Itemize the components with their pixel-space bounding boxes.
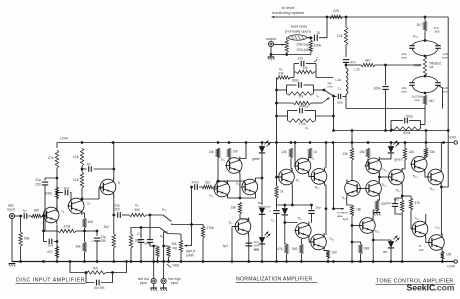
resistor 2k2 [113,215,115,234]
resistor 2k7 upper [424,17,426,21]
jack line low input [151,278,156,283]
transistor Tr21 [429,235,445,251]
loop 180p / 22k L1 [277,89,287,91]
wire cap to top line [319,17,327,38]
potentiometer 25k TREBLE [423,56,426,76]
svg-text:2k7: 2k7 [429,99,435,103]
svg-text:GAIN: GAIN [186,254,194,258]
wire Tr5 collector [240,143,246,159]
transistor Tr12 [311,234,327,250]
capacitor 47n [343,59,349,61]
transistor Tr7 [235,219,251,235]
capacitor 1n8 tune upper [435,45,441,47]
capacitor 22u 25V emitter [96,231,98,236]
jack line high input [161,278,166,283]
wire Tr16 emitter [401,185,403,200]
capacitor 180n mute [334,96,337,98]
wire Tr18 collector [440,143,442,169]
svg-text:470: 470 [47,250,53,254]
svg-text:25k log: 25k log [297,43,309,47]
wire wiper input gain [191,187,193,246]
svg-text:180n: 180n [337,101,344,105]
svg-text:Tr₁₉: Tr₁₉ [414,217,420,221]
wire top signal line [272,16,341,18]
capacitor 10p tune upper [409,45,415,47]
wire line high input [163,232,165,279]
LED green tone [390,143,392,147]
resistor 180k [129,234,132,248]
resistor 15k norm [216,148,219,158]
svg-text:2µ2: 2µ2 [223,244,229,248]
svg-text:22k: 22k [298,95,304,99]
svg-text:12k: 12k [302,66,308,70]
ground line high [163,284,165,288]
capacitor 470n [192,186,194,188]
svg-text:1µ: 1µ [23,209,27,213]
capacitor 22u 25V coupling [117,212,119,218]
wire x276 column [276,78,278,143]
wire relay to cap [287,37,288,39]
svg-text:.com: .com [435,283,455,293]
svg-text:monitoring system: monitoring system [272,10,305,15]
resistor 270k [201,226,204,238]
transistor Tr5 [226,158,242,174]
svg-text:L1b: L1b [354,68,360,72]
transistor Tr9 [295,158,311,174]
disc input terminal [9,213,14,218]
svg-text:NORMALIZATION AMPLIFIER: NORMALIZATION AMPLIFIER [236,277,313,283]
resistor 6k8 [293,101,311,104]
switch sig [324,90,334,96]
output arrow to sampling gate [334,208,345,210]
capacitor C1 6n8 [140,228,142,239]
svg-text:10k: 10k [233,150,239,154]
svg-text:100: 100 [332,251,338,255]
svg-text:Tr₁₂: Tr₁₂ [329,237,335,241]
svg-text:560: 560 [134,208,140,212]
wire Tr3 collector [113,143,115,180]
resistor 1k norm [308,148,311,158]
wire Tr17 collector [425,131,427,149]
resistor 470 [55,246,58,258]
resistor 12k norm [289,148,292,158]
wire Tr7 emitter [248,235,250,262]
svg-text:Tr₂₁: Tr₂₁ [435,226,440,230]
junction relay-100k [309,36,312,39]
wire Tr8 collector [291,168,292,170]
wire Tr12 emitter [324,250,328,252]
svg-text:12k: 12k [73,178,79,182]
svg-text:Tr₇: Tr₇ [229,221,233,225]
svg-text:Tr₁₁: Tr₁₁ [297,217,302,221]
wire Tr13-Tr15 bases [358,187,367,189]
svg-text:+: + [91,240,93,244]
svg-text:tune: tune [442,56,448,60]
capacitor C3 [276,205,278,210]
loop 72p / 270k [277,115,288,117]
svg-text:input: input [7,208,14,212]
wiper arrow treble [404,64,422,66]
svg-text:input: input [171,281,178,285]
resistor 910 [202,185,213,188]
wire Tr16 base [379,176,390,178]
capacitor 700p [391,120,403,122]
svg-text:6k8: 6k8 [364,247,369,251]
wire line low input [153,246,155,279]
svg-text:100: 100 [446,253,452,257]
parallel 1n5 / 12k [293,64,295,78]
wire Tr3 emitter [113,195,115,216]
wire Tr20 base [411,228,415,230]
ground rail 0V [12,261,454,263]
svg-text:+: + [269,210,271,214]
svg-text:220k: 220k [63,225,71,229]
transistor Tr3 [100,179,116,195]
ground output [270,55,272,57]
svg-text:18k: 18k [356,208,362,212]
svg-text:25V: 25V [35,183,42,187]
svg-text:100k: 100k [314,44,322,48]
transistor Tr10 [311,169,327,185]
reed relay [288,35,306,40]
wire Tr15 emitter [377,197,379,200]
svg-text:2k2: 2k2 [104,225,109,229]
svg-text:1k5: 1k5 [419,248,424,252]
capacitor 22u 25V electrolytic [42,181,48,183]
LED red tone [373,239,391,241]
svg-text:+24V: +24V [447,265,456,269]
svg-text:1k: 1k [280,190,284,194]
svg-text:mut: mut [328,84,333,88]
svg-text:100n: 100n [373,87,381,91]
resistor 47k norm [284,223,286,245]
svg-text:4n7: 4n7 [64,187,70,191]
svg-text:22k: 22k [278,72,284,76]
svg-text:input: input [140,281,147,285]
wire treble right tie [438,85,443,108]
svg-text:700p: 700p [405,115,413,119]
svg-text:U₁₂: U₁₂ [160,234,165,238]
parallel 700p / 820k [421,124,426,126]
svg-text:Tr₁₀: Tr₁₀ [314,186,320,190]
svg-text:56k: 56k [24,237,30,241]
svg-text:Tr₁₄: Tr₁₄ [382,168,388,172]
transistor Tr14 [366,158,382,174]
resistor 15k (Tr4 bias) [216,148,219,158]
capacitor 22n tant [246,242,252,244]
wire input ground [11,219,13,262]
transistor Tr20 [412,221,428,237]
wire Tr8 emitter [291,186,293,205]
svg-text:910: 910 [205,181,211,185]
transistor Tr8 [279,169,295,185]
svg-text:R₁: R₁ [135,204,138,208]
svg-text:2k7: 2k7 [417,23,423,27]
resistor R3 22k [277,76,291,79]
transistor Tr1 [43,207,59,223]
svg-text:470n: 470n [191,181,198,185]
wire Tr9 base [295,143,298,167]
resistor 10k (Tr5 collector) [227,148,230,158]
svg-text:12k: 12k [281,150,287,154]
resistor 100k line high [164,245,169,247]
wire y215 chain [114,214,116,216]
svg-text:7k5: 7k5 [92,267,97,271]
wire Tr19 collector [373,210,379,217]
svg-text:Tr₁₇: Tr₁₇ [395,189,400,193]
diode norm [284,205,286,208]
resistor 120 [330,15,343,18]
resistor 47k [55,150,58,168]
svg-text:25V: 25V [101,239,108,243]
wire loop 6k8 [277,102,294,104]
svg-text:tune: tune [414,98,420,102]
wire Tr10 emitter to Tr12 [325,185,326,235]
wire line select [131,228,160,235]
svg-text:(normally open): (normally open) [285,29,311,33]
svg-text:22µ: 22µ [35,178,41,182]
svg-text:120: 120 [333,9,339,13]
svg-text:15k: 15k [430,150,436,154]
switch U1b [160,228,168,234]
capacitor line low [147,239,153,241]
svg-text:1µ: 1µ [87,162,91,166]
wire Tr21 emitter resistor 100 [441,250,443,253]
svg-text:Tr₈: Tr₈ [296,179,301,183]
svg-text:tune: tune [401,56,407,60]
resistor 12k lower [80,172,83,188]
svg-text:C₃: C₃ [271,219,275,223]
svg-text:reed relay: reed relay [291,25,308,29]
svg-text:30p: 30p [316,206,321,210]
svg-text:100k: 100k [45,192,53,196]
wire Tr10 collector [325,143,327,168]
svg-text:820: 820 [34,209,40,213]
output terminal [268,41,273,46]
svg-text:15k: 15k [209,150,215,154]
svg-text:L₁: L₁ [317,94,320,98]
wire Tr2 collector to Tr3 base [82,188,103,199]
svg-text:1n5: 1n5 [297,57,303,61]
capacitor 1u mid [82,168,87,170]
terminal +24V bottom right [454,260,457,263]
svg-text:560: 560 [292,247,298,251]
wire Tr20 collector [425,214,427,221]
wire 22u tap [45,178,57,181]
capacitor 4n7 [57,192,63,194]
svg-text:100k: 100k [172,264,180,268]
transistor Tr4 [214,181,230,197]
svg-text:47k: 47k [415,201,421,205]
wire y205 [277,204,312,206]
resistor 220k [44,230,59,232]
svg-text:12k: 12k [409,150,415,154]
transistor Tr2 [68,198,84,214]
svg-text:Tr₁₉: Tr₁₉ [375,230,381,234]
capacitor 1n5 [44,241,48,243]
svg-text:47k: 47k [48,156,54,160]
wire volume bottom [271,47,311,55]
wire base box Tr4-Tr6 [217,180,245,182]
wire Tr17 emitter [425,172,430,177]
svg-text:1n5: 1n5 [48,244,53,248]
potentiometer 25k log VOLUME [285,40,288,53]
svg-text:1µ5: 1µ5 [343,217,349,221]
svg-text:10µ: 10µ [386,201,391,205]
inductor L1a [346,68,348,72]
resistor 820k [391,127,421,130]
svg-text:tune: tune [442,90,448,94]
svg-text:1k: 1k [314,150,318,154]
svg-text:1k8: 1k8 [88,220,93,224]
transistor Tr13 [345,181,361,197]
wire Tr19 base [352,225,362,227]
wire Tr14 emitter to Tr15 [378,173,380,181]
svg-text:+24V: +24V [448,136,457,140]
wire x333 column [333,96,335,131]
svg-text:5k6: 5k6 [435,30,440,34]
svg-text:Tr₁₅: Tr₁₅ [382,183,388,187]
transistor Tr16 [389,169,405,185]
capacitor 100n [385,65,387,85]
resistor 4k7 [361,63,375,66]
svg-text:270k: 270k [207,226,215,230]
capacitor 1n8 tune lower [435,82,441,84]
wire to 270k [192,225,204,227]
wire Tr20 emitter to Tr21 base [426,237,432,242]
bridge lower (treble caps) [412,76,425,83]
wire right edge feedback [442,17,449,187]
diode bias [259,208,265,215]
svg-text:Tr₁₈: Tr₁₈ [412,175,418,179]
junction top-12k [345,16,348,19]
svg-text:820k: 820k [403,131,411,135]
svg-text:output: output [266,37,276,41]
wire Tr5 emitter [239,175,241,199]
potentiometer 25k log INPUT GAIN [180,234,182,240]
resistor 820 [31,214,42,217]
resistor 47k right [402,195,411,197]
wire Tr18 emitter / output node [440,186,442,235]
svg-text:+24V: +24V [60,137,69,141]
junction top-treble [424,16,427,19]
svg-text:tune: tune [401,90,407,94]
resistor 100k line low [156,246,159,257]
svg-text:12k: 12k [337,34,343,38]
svg-text:log: log [172,246,176,250]
resistor 18k tone [350,205,353,216]
transistor Tr19 [360,218,376,234]
wire mid distribution y130.5 [334,130,448,132]
wire Tr9 collector [309,157,310,160]
svg-text:47k: 47k [277,247,283,251]
resistor 12k upper [80,148,83,166]
+24V rail [57,142,454,144]
ground disc input [9,263,16,265]
wire Tr1 emitter [56,225,58,262]
junction top-volume [326,16,329,19]
wire Tr6 collector [256,158,262,179]
junction 100n column [384,64,387,67]
svg-text:25V: 25V [114,208,121,212]
svg-text:green: green [395,158,403,162]
svg-text:12k: 12k [73,155,79,159]
wire Tr16 collector [404,143,406,149]
wire Tr13 emitter [347,197,352,205]
ground line low [153,284,155,288]
resistor 18k [238,202,241,214]
svg-text:25k: 25k [414,64,420,68]
wire Tr21 collector [441,233,443,236]
svg-text:10n 5%: 10n 5% [94,286,105,290]
resistor 6k8 tone [352,242,361,244]
transistor Tr6 [242,179,258,195]
wire 4k7 feed [346,64,361,66]
resistor 1k feedback [276,177,278,186]
wire Tr19 emitter [372,234,374,262]
svg-text:DISC INPUT AMPLIFIER: DISC INPUT AMPLIFIER [16,278,85,284]
svg-text:Tr₄: Tr₄ [209,194,214,198]
loop 7k5 / 10n 5% [70,262,84,273]
capacitor 10p tune lower [409,82,415,84]
svg-text:1µ: 1µ [316,31,320,35]
resistor 560 norm [300,239,302,244]
wire bottom treble row [346,108,425,110]
switch U1a [163,215,172,222]
svg-text:15k: 15k [359,150,365,154]
wire base bias [43,216,45,242]
svg-text:Tr₂₀: Tr₂₀ [429,187,435,191]
resistor R1 560 [129,213,146,216]
svg-text:18k: 18k [231,206,237,210]
svg-text:4k7: 4k7 [365,59,371,63]
resistor 1k8 lower [83,242,86,252]
wire Tr11 emitter to Tr12 base [309,239,313,242]
transistor Tr17 [411,156,427,172]
svg-text:72p: 72p [303,105,309,109]
wire output arrow to volume wiper [274,44,285,46]
svg-text:22k: 22k [343,152,349,156]
LED green / diode column x262 [261,143,263,147]
resistor 4k3 + 10u [401,200,404,212]
wire emitters join [227,197,229,200]
resistor 47k tone + ground [376,199,378,201]
resistor 56k [20,216,22,232]
transistor Tr18 [428,169,444,185]
wire input coupling [15,215,23,217]
resistor 15k tone2 [366,148,369,158]
resistor 12k (x346) [345,17,347,27]
resistor 100k [55,187,58,199]
svg-text:Tr₅: Tr₅ [221,158,226,162]
wire Tr7 base [232,226,238,228]
svg-text:green: green [252,157,260,161]
svg-text:cut: cut [429,65,433,69]
svg-text:Tr₆: Tr₆ [236,182,241,186]
svg-text:red: red [383,250,388,254]
svg-text:L1a: L1a [335,78,341,82]
transistor Tr11 [296,223,312,239]
resistor 100k (volume load) [309,40,312,52]
terminal +24V right [454,141,457,144]
wire x276 lower [276,143,278,178]
LED red [259,237,265,244]
wire Tr9 emitter [309,175,314,176]
svg-text:1k8: 1k8 [75,245,80,249]
svg-text:red: red [254,248,259,252]
svg-text:C₁: C₁ [137,232,140,236]
resistor 2k7 lower [423,95,426,105]
